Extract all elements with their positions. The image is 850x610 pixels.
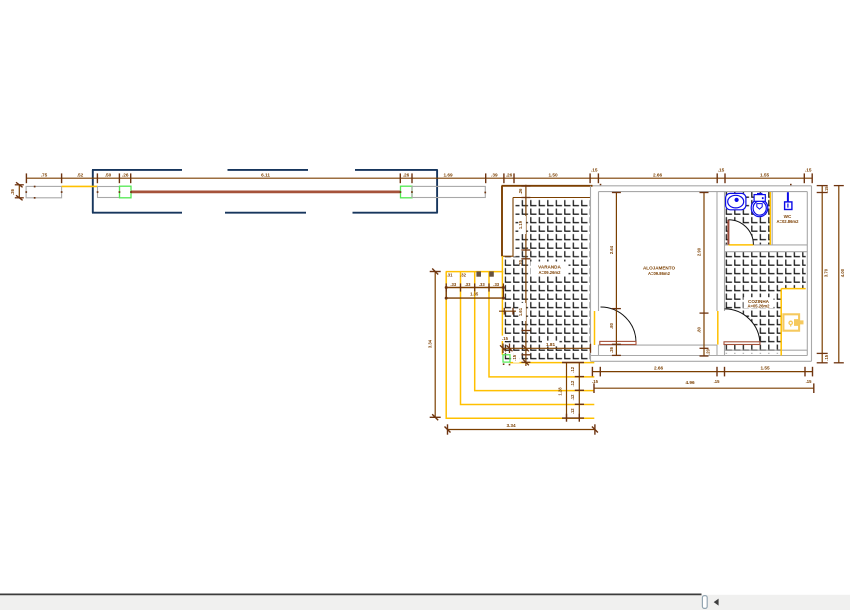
svg-text:1.69: 1.69 <box>443 172 453 177</box>
svg-text:.33: .33 <box>450 282 456 287</box>
brown point markers <box>25 184 791 366</box>
scrollbar splitter button <box>702 596 707 609</box>
svg-text:1.35: 1.35 <box>470 291 479 296</box>
dark post squares on stair top <box>476 271 481 276</box>
svg-text:6.11: 6.11 <box>261 172 270 177</box>
elevation gray box B <box>98 187 120 198</box>
alojamento door arc <box>601 307 637 343</box>
svg-text:.15: .15 <box>805 168 812 173</box>
svg-text:A=09.86m2: A=09.86m2 <box>648 271 671 276</box>
svg-text:1.19: 1.19 <box>518 220 523 229</box>
svg-text:3.34: 3.34 <box>428 339 433 348</box>
shower head symbol <box>785 192 792 209</box>
svg-text:VARANDA: VARANDA <box>538 265 561 270</box>
svg-text:.20: .20 <box>706 348 711 354</box>
navy outline rect of long building <box>92 170 438 213</box>
svg-text:1.55: 1.55 <box>760 366 770 371</box>
bottom dim 3.34 <box>448 429 595 431</box>
svg-text:.52: .52 <box>77 172 84 177</box>
veranda brown parapet walls <box>502 186 593 256</box>
bottom dim row 2.66 / 1.55 <box>592 371 812 373</box>
svg-text:A=05.26m2: A=05.26m2 <box>747 304 770 309</box>
svg-text:.12: .12 <box>570 408 575 414</box>
svg-text:1.81: 1.81 <box>546 342 556 347</box>
alojamento right vertical dim 2.90 <box>703 193 705 357</box>
svg-text:.15: .15 <box>512 354 517 360</box>
svg-text:2.66: 2.66 <box>654 366 664 371</box>
svg-text:.31: .31 <box>447 272 453 277</box>
svg-text:.50: .50 <box>105 172 112 177</box>
svg-text:.20: .20 <box>518 259 523 265</box>
svg-text:.15: .15 <box>824 186 829 192</box>
cozinha label mask <box>744 297 774 308</box>
svg-text:A=09.26m2: A=09.26m2 <box>538 270 561 275</box>
svg-text:.33: .33 <box>479 282 485 287</box>
svg-text:4.00: 4.00 <box>840 268 845 277</box>
svg-text:.15: .15 <box>824 354 829 360</box>
wc tile hatch <box>725 192 771 245</box>
svg-text:1.50: 1.50 <box>548 172 558 177</box>
svg-text:.15: .15 <box>592 379 598 384</box>
alojamento door leaf <box>600 341 636 344</box>
green corner square of veranda <box>503 355 510 362</box>
svg-text:3.70: 3.70 <box>824 268 829 277</box>
alojamento left vertical dim 2.64 <box>615 193 617 356</box>
green post square 1 <box>120 186 132 198</box>
svg-text:2.90: 2.90 <box>697 247 702 256</box>
svg-text:.33: .33 <box>465 282 471 287</box>
svg-text:.80: .80 <box>697 326 702 332</box>
svg-text:1.55: 1.55 <box>760 172 770 177</box>
stair top dim rows .33 and 1.35 <box>445 287 504 289</box>
svg-text:.39: .39 <box>491 172 498 177</box>
white wedge of wc door <box>728 220 753 245</box>
kitchen sink appliance <box>783 314 803 330</box>
svg-text:.15: .15 <box>502 336 508 341</box>
wc door leaf <box>727 220 729 245</box>
svg-text:1.28: 1.28 <box>558 387 563 396</box>
kitchen door leaf <box>724 342 760 345</box>
veranda vertical dim line <box>525 185 527 366</box>
veranda tile hatch lower <box>505 257 591 361</box>
staircase yellow steps <box>446 272 595 419</box>
elevation gray box C <box>412 186 485 197</box>
stair step dim column 1.28 <box>566 363 568 419</box>
yellow lintel segment <box>62 185 98 187</box>
svg-text:.80: .80 <box>609 322 614 328</box>
svg-text:.26: .26 <box>403 172 410 177</box>
svg-text:3.34: 3.34 <box>506 423 516 428</box>
scrollbar left arrow <box>714 599 719 606</box>
thick sienna beam line <box>131 191 401 194</box>
svg-text:.15: .15 <box>806 379 812 384</box>
bottom dim row 4.96 <box>594 387 814 389</box>
varanda label mask <box>531 262 569 277</box>
svg-text:.15: .15 <box>714 379 720 384</box>
status bar track <box>0 595 850 610</box>
svg-text:.26: .26 <box>609 346 614 352</box>
svg-text:.26: .26 <box>122 172 129 177</box>
svg-text:.26: .26 <box>506 172 513 177</box>
status bar divider line <box>0 593 702 595</box>
svg-text:1.61: 1.61 <box>518 307 523 316</box>
left vertical dim 3.34 <box>434 272 436 418</box>
svg-text:.12: .12 <box>570 380 575 386</box>
yellow opening lines in plan <box>502 192 805 363</box>
svg-text:.15: .15 <box>591 168 598 173</box>
right vertical dim 3.70 <box>821 186 823 363</box>
dimension ticks on main string <box>26 173 812 183</box>
svg-text:.26: .26 <box>518 188 523 194</box>
wc door arc <box>728 220 753 245</box>
kitchen tile hatch lower <box>725 289 781 354</box>
svg-text:A=02.86m2: A=02.86m2 <box>776 219 799 224</box>
svg-text:4.96: 4.96 <box>685 380 695 385</box>
svg-text:.33: .33 <box>493 282 499 287</box>
svg-text:.26: .26 <box>10 188 15 194</box>
wc toilet <box>751 194 768 217</box>
veranda 1.81 horizontal dim <box>503 347 591 349</box>
green post square 2 <box>401 186 413 198</box>
kitchen tile hatch upper <box>725 252 806 289</box>
main horizontal dimension string <box>26 177 812 179</box>
svg-text:.12: .12 <box>570 394 575 400</box>
right vertical dim 4.00 <box>838 186 840 363</box>
elevation gray box A <box>26 186 62 197</box>
svg-text:.15: .15 <box>718 168 725 173</box>
svg-text:.32: .32 <box>460 272 466 277</box>
svg-text:2.64: 2.64 <box>609 245 614 254</box>
kitchen door arc <box>725 309 760 344</box>
veranda tile hatch upper <box>516 198 591 257</box>
svg-text:.75: .75 <box>41 172 48 177</box>
wc sink <box>726 193 746 209</box>
left vertical .26 dimension <box>15 182 24 200</box>
svg-text:2.66: 2.66 <box>653 172 663 177</box>
svg-text:.12: .12 <box>570 366 575 372</box>
dimension labels on main string <box>41 168 812 178</box>
white wedge of kitchen door <box>725 309 760 344</box>
gray walls of plan <box>591 186 812 361</box>
room labels <box>538 214 799 309</box>
